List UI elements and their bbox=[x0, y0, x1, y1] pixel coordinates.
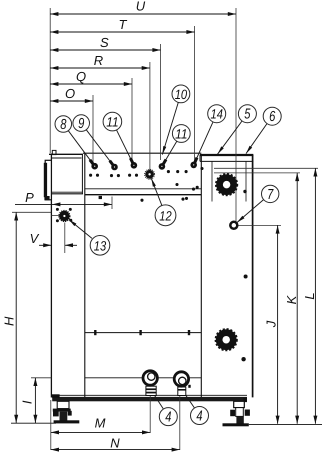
balloon 12 bbox=[155, 205, 176, 226]
balloon 7 bbox=[262, 185, 279, 203]
pipe axis line bbox=[85, 377, 202, 379]
base slab bbox=[52, 394, 247, 401]
dimension J bbox=[237, 225, 281, 423]
ground line right bbox=[249, 424, 322, 426]
svg-text:14: 14 bbox=[211, 107, 223, 122]
svg-text:5: 5 bbox=[244, 107, 251, 123]
svg-text:K: K bbox=[284, 294, 299, 304]
svg-text:10: 10 bbox=[175, 87, 188, 102]
balloon 11 bbox=[103, 112, 122, 131]
svg-text:H: H bbox=[2, 316, 17, 326]
svg-text:N: N bbox=[110, 436, 120, 451]
svg-text:R: R bbox=[94, 53, 103, 68]
svg-text:L: L bbox=[302, 292, 317, 299]
dimension K bbox=[214, 173, 300, 424]
left thin plate bbox=[44, 160, 52, 200]
svg-text:6: 6 bbox=[269, 109, 276, 125]
dimension T bbox=[50, 17, 194, 163]
dimension S bbox=[50, 35, 160, 160]
top edge bbox=[83, 152, 201, 154]
leader 4a bbox=[154, 394, 164, 409]
inner left wall bbox=[84, 153, 86, 397]
dimension O bbox=[50, 86, 93, 163]
fitting 13 (pump flange) bbox=[56, 208, 72, 222]
leader 14 bbox=[194, 122, 213, 165]
balloon 5 bbox=[238, 105, 256, 123]
svg-text:M: M bbox=[95, 416, 106, 431]
svg-text:11: 11 bbox=[106, 115, 118, 130]
balloon 9 bbox=[73, 115, 90, 132]
leader 13 bbox=[69, 220, 92, 239]
fitting 12 target bbox=[145, 169, 155, 179]
top band lines bbox=[85, 188, 202, 190]
pipe stub 2 bbox=[174, 372, 191, 396]
balloon 13 bbox=[90, 236, 110, 256]
leader 10 bbox=[162, 102, 178, 154]
dimension P bbox=[15, 190, 112, 209]
bolts on top band bbox=[90, 160, 98, 170]
svg-text:P: P bbox=[25, 190, 34, 205]
right foot bbox=[223, 398, 250, 427]
balloon 8 bbox=[55, 116, 72, 133]
svg-text:7: 7 bbox=[267, 187, 274, 203]
svg-text:9: 9 bbox=[78, 116, 84, 132]
balloon 4 bbox=[191, 407, 209, 425]
flue duct inner lines bbox=[211, 161, 213, 201]
left foot bbox=[53, 401, 80, 423]
leader 7 bbox=[237, 200, 264, 223]
dimension H bbox=[2, 212, 60, 423]
ground line left bbox=[11, 422, 56, 424]
flue fan top (gear) bbox=[216, 174, 236, 194]
left extension line bbox=[49, 8, 51, 153]
svg-text:I: I bbox=[20, 400, 35, 404]
svg-text:Q: Q bbox=[76, 69, 86, 84]
balloon 11 bbox=[172, 125, 190, 143]
leader 12 bbox=[151, 178, 162, 206]
svg-text:U: U bbox=[136, 0, 146, 14]
dimension Q bbox=[50, 69, 132, 163]
svg-text:S: S bbox=[100, 35, 109, 50]
dimension M bbox=[51, 395, 150, 451]
svg-text:13: 13 bbox=[94, 238, 107, 253]
balloon 6 bbox=[263, 107, 281, 125]
fitting 7 target bbox=[230, 222, 237, 229]
svg-text:4: 4 bbox=[196, 409, 202, 425]
svg-text:12: 12 bbox=[159, 208, 172, 223]
right wall bbox=[252, 155, 254, 398]
balloon 4 bbox=[159, 408, 177, 426]
pipe stub 1 bbox=[143, 371, 157, 396]
balloon 14 bbox=[208, 105, 226, 123]
flue top band bbox=[200, 155, 253, 162]
leader 5 bbox=[218, 121, 243, 154]
leader 9 bbox=[86, 130, 114, 167]
leader 11b bbox=[162, 141, 177, 166]
right column bolts bbox=[243, 190, 246, 193]
svg-text:T: T bbox=[119, 17, 128, 32]
svg-text:8: 8 bbox=[60, 117, 66, 133]
dimension R bbox=[50, 53, 150, 170]
leader 8 bbox=[68, 131, 94, 167]
leader 4b bbox=[185, 394, 195, 408]
left wall bbox=[50, 154, 52, 398]
dimension N bbox=[51, 395, 180, 452]
dimension I bbox=[20, 378, 52, 423]
band holes bbox=[89, 174, 92, 177]
dimension U bbox=[50, 0, 236, 222]
mid shelf line bbox=[85, 330, 202, 335]
leader 6 bbox=[246, 124, 267, 154]
svg-text:O: O bbox=[65, 86, 75, 101]
svg-text:4: 4 bbox=[165, 410, 171, 426]
svg-text:J: J bbox=[264, 320, 279, 328]
svg-text:V: V bbox=[30, 231, 40, 246]
dimension L bbox=[214, 168, 318, 423]
right column left edge bbox=[200, 155, 202, 398]
leader 11a bbox=[117, 130, 134, 165]
dimension V bbox=[30, 223, 77, 254]
balloon 10 bbox=[172, 85, 190, 103]
svg-text:11: 11 bbox=[175, 127, 187, 142]
top-left small box (burner mount) bbox=[49, 150, 83, 193]
